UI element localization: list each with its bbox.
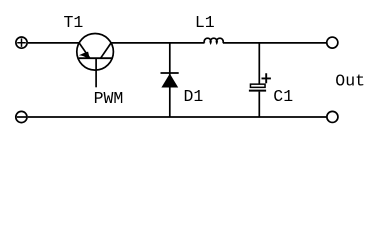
wire capacitor branch bottom [258, 92, 260, 117]
terminal output- [327, 111, 338, 122]
svg-text:PWM: PWM [94, 89, 124, 108]
inductor L1 [204, 38, 223, 43]
svg-text:L1: L1 [195, 13, 215, 32]
terminal - (input negative) [16, 111, 27, 122]
diode D1 [161, 73, 179, 88]
wire capacitor branch top [258, 43, 260, 84]
svg-text:D1: D1 [184, 87, 204, 106]
terminal output+ [327, 37, 338, 48]
svg-text:C1: C1 [273, 87, 293, 106]
capacitor C1 (polarized) [249, 73, 271, 90]
wire ground rail (bottom) [28, 116, 327, 118]
svg-text:T1: T1 [64, 13, 84, 32]
transistor T1 [77, 34, 114, 88]
wire T1 collector to L1 [111, 42, 204, 44]
wire diode branch (switch node to ground rail) [169, 43, 171, 117]
terminal + (input positive) [16, 37, 27, 48]
svg-text:Out: Out [335, 72, 365, 91]
wire L1 to output+ terminal [223, 42, 326, 44]
wire input+ to T1 emitter [28, 42, 79, 44]
